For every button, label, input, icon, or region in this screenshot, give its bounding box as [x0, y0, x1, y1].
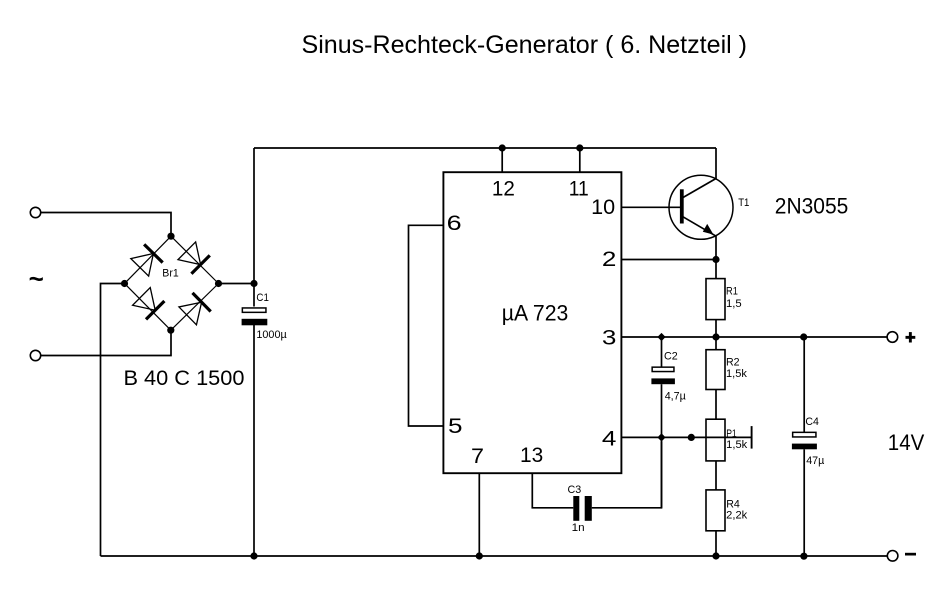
svg-text:4: 4 [602, 428, 617, 451]
node minus rail C4 [800, 553, 807, 560]
wire R4 to minus rail [715, 531, 717, 556]
diode D1 (left node to top node) [130, 244, 162, 276]
wire collector to top rail [715, 148, 717, 179]
wire C2 upper [661, 337, 663, 367]
svg-text:R1: R1 [726, 286, 738, 298]
transistor T1 base bar [680, 189, 684, 223]
svg-text:1,5k: 1,5k [726, 439, 747, 451]
diode D2 (top node to right node) [178, 242, 210, 274]
wire emitter down to pin2 node [715, 236, 717, 260]
svg-text:2: 2 [602, 248, 617, 271]
wire pin 10 to base [621, 206, 680, 208]
wire C1 vertical upper [253, 148, 255, 307]
minus sign [905, 553, 916, 556]
capacitor C3 [573, 496, 592, 521]
wire pin 7 stub to minus rail [478, 473, 480, 556]
svg-text:3: 3 [602, 327, 617, 350]
svg-text:6: 6 [447, 212, 462, 235]
transistor Q1 T1 circle [669, 175, 733, 239]
wire C4 lower [803, 449, 805, 556]
svg-text:2,2k: 2,2k [726, 510, 747, 522]
wire C2 lower down to C3 wire [661, 384, 663, 508]
transistor T1 emitter diagonal with arrow [683, 217, 716, 236]
capacitor C2 [651, 367, 675, 384]
wire pin 12 stub [501, 148, 503, 172]
svg-text:T1: T1 [738, 197, 749, 209]
wire pin 13 down and right to C3 [532, 473, 573, 508]
svg-text:2N3055: 2N3055 [775, 193, 849, 218]
op-amp U1 (µA 723 regulator IC box) [443, 172, 621, 473]
terminal plus output [887, 332, 898, 343]
svg-text:C3: C3 [568, 484, 582, 496]
svg-text:1,5k: 1,5k [726, 368, 747, 380]
svg-text:5: 5 [448, 415, 463, 438]
svg-text:47µ: 47µ [806, 455, 825, 467]
node pin4 C2 junction [657, 433, 665, 441]
capacitor C1 [242, 308, 268, 325]
diode D3 (left node to bottom node) [132, 287, 164, 319]
terminal AC input top [30, 207, 40, 217]
wire P1 to R4 [715, 461, 717, 490]
resistor R1 [706, 279, 725, 320]
wire C4 upper [803, 337, 805, 432]
svg-text:µA 723: µA 723 [502, 300, 569, 325]
node pin3 C2 junction [657, 333, 665, 341]
wire minus rail [101, 555, 888, 557]
node C1 top junction [250, 280, 257, 287]
svg-text:C4: C4 [805, 416, 819, 428]
wire bridge right node to C1 [219, 283, 255, 285]
svg-text:P1: P1 [726, 428, 737, 440]
svg-text:1,5: 1,5 [726, 298, 742, 310]
potentiometer P1 body [706, 419, 725, 461]
wire C3 right to pin4 riser [592, 442, 662, 508]
svg-text:C1: C1 [256, 292, 269, 304]
wire R1 to pin3 rail [715, 320, 717, 337]
node pin3 C4 junction [800, 333, 807, 340]
capacitor C4 [792, 432, 817, 449]
potentiometer P1 wiper tick [751, 426, 753, 449]
svg-text:12: 12 [492, 178, 515, 201]
node bridge right [215, 280, 222, 287]
node bridge top [167, 233, 174, 240]
terminal AC input bottom [30, 350, 40, 360]
wire pin 11 stub [579, 148, 581, 172]
node bridge bottom [167, 327, 174, 334]
svg-text:R2: R2 [726, 357, 740, 369]
resistor R2 [706, 350, 725, 390]
svg-text:10: 10 [591, 196, 615, 219]
wire bridge left node down to minus rail [101, 284, 125, 557]
node emitter pin2 junction [712, 256, 719, 263]
wire pin3 node to R2 [715, 337, 717, 350]
node pin11 junction [576, 144, 583, 151]
svg-text:11: 11 [569, 178, 589, 201]
svg-text:Br1: Br1 [162, 268, 178, 280]
node pin12 junction [499, 144, 506, 151]
svg-text:4,7µ: 4,7µ [665, 390, 687, 402]
wire R2 to P1 [715, 390, 717, 420]
node pin4 wiper junction [688, 434, 695, 441]
transistor T1 collector diagonal [683, 179, 716, 198]
node minus rail pin7 [476, 552, 483, 559]
wire top rail [254, 147, 716, 149]
svg-text:~: ~ [29, 263, 44, 293]
wire C1 vertical lower [253, 325, 255, 556]
node bridge left [121, 280, 128, 287]
wire AC top to bridge [41, 213, 172, 238]
svg-text:1000µ: 1000µ [256, 329, 287, 341]
node pin3 R1/R2 junction [712, 333, 719, 340]
diode D4 (bottom node to right node) [179, 293, 211, 325]
wire AC bottom to bridge [41, 329, 172, 356]
terminal minus output [887, 551, 898, 562]
wire pin 2 [621, 259, 716, 261]
resistor R4 [706, 490, 725, 531]
svg-text:Sinus-Rechteck-Generator ( 6.: Sinus-Rechteck-Generator ( 6. Netzteil ) [302, 31, 748, 59]
wire pin 3 to plus terminal [621, 336, 887, 338]
plus sign [906, 332, 916, 342]
node minus rail C1 [250, 552, 257, 559]
svg-text:1n: 1n [572, 522, 585, 534]
bridge Br1 diamond edges [125, 236, 219, 330]
wire pin2 node to R1 [715, 260, 717, 279]
svg-text:C2: C2 [664, 351, 678, 363]
wire pin 6 to pin 5 loop [409, 225, 444, 426]
svg-text:B 40 C 1500: B 40 C 1500 [124, 367, 245, 390]
svg-text:7: 7 [471, 445, 484, 468]
svg-text:13: 13 [520, 444, 543, 467]
svg-text:14V: 14V [888, 430, 925, 455]
wire pin 4 to wiper [621, 436, 751, 438]
node minus rail R4 [712, 552, 719, 559]
